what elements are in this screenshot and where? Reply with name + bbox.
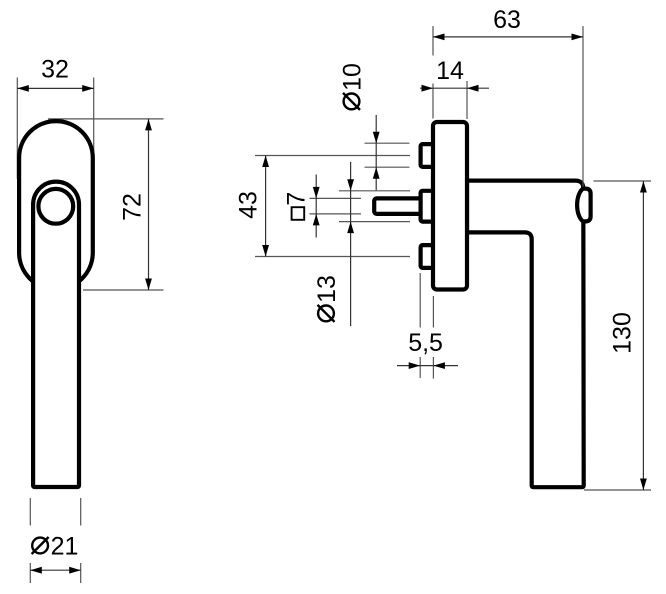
dimension 130 line <box>640 181 647 490</box>
dimension 63 line <box>433 34 583 41</box>
text mask 5,5 <box>403 328 448 358</box>
hub circle (spindle boss) <box>38 189 73 224</box>
dimension text O13 (rotated) <box>313 275 341 322</box>
screw boss lower (O10) <box>421 245 436 268</box>
dimension 72 extension lines <box>48 119 164 290</box>
svg-text:5,5: 5,5 <box>408 329 443 357</box>
dimension 63 extension lines <box>433 26 583 187</box>
svg-text:72: 72 <box>119 193 147 221</box>
dimension 32 line <box>17 85 93 92</box>
dimension 5,5 line and arrows <box>397 362 458 369</box>
dimension 5,5 extension lines <box>420 273 433 379</box>
dimension text O10 (rotated) <box>339 63 367 110</box>
dimension text square7 (rotated, square symbol drawn) <box>283 192 311 220</box>
dimension square7 line and arrows <box>313 175 320 238</box>
handle arm and grip (side view L-shape) <box>467 181 584 488</box>
dimension 130 extension lines <box>584 181 651 490</box>
dimension O13 line and arrows <box>347 162 354 326</box>
dimension O13 extension lines <box>339 191 410 222</box>
dimension O10 line and arrows <box>373 115 380 190</box>
svg-text:10: 10 <box>339 63 367 91</box>
dimension O10 extension lines <box>365 143 410 167</box>
dimension 14 extension line <box>466 81 468 119</box>
svg-text:63: 63 <box>493 6 521 34</box>
svg-text:7: 7 <box>283 192 311 206</box>
spindle hub (O13) <box>421 191 436 222</box>
spindle shaft (square 7mm) <box>374 198 421 214</box>
mounting plate (side view) <box>433 122 467 290</box>
dimension text O21 <box>32 533 79 561</box>
dimension square7 extension lines <box>310 198 362 214</box>
grip end cap detail <box>577 189 591 222</box>
svg-text:32: 32 <box>41 56 69 84</box>
svg-text:13: 13 <box>313 275 341 303</box>
svg-text:130: 130 <box>609 312 637 354</box>
screw boss upper (O10) <box>421 144 436 167</box>
rosette (front view, stadium shape) <box>19 121 93 289</box>
dimension 72 line <box>145 119 152 290</box>
dimension O21 extension lines <box>30 498 80 583</box>
svg-text:43: 43 <box>234 191 262 219</box>
dimension 32 extension lines <box>17 78 93 180</box>
svg-text:21: 21 <box>51 533 79 561</box>
grip / lever (front view) <box>33 182 79 487</box>
svg-text:14: 14 <box>436 57 464 85</box>
dimension 43 extension lines (screw boss centers) <box>255 156 410 257</box>
dimension 14 line and arrows <box>420 85 489 92</box>
dimension O21 line <box>30 567 80 574</box>
dimension 43 line <box>262 156 269 257</box>
